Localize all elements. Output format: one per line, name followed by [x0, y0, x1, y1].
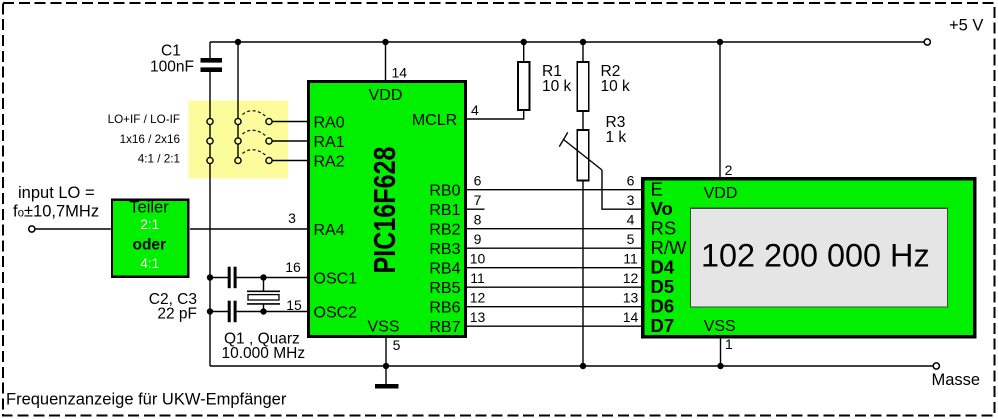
svg-text:D7: D7 [651, 315, 675, 336]
svg-text:MCLR: MCLR [412, 112, 457, 129]
svg-text:7: 7 [474, 192, 482, 208]
svg-text:C1: C1 [161, 43, 181, 60]
junction C1 line / OSC2 [207, 308, 213, 314]
wire LCD VSS pin 1 to ground rail [720, 339, 722, 367]
svg-text:input LO =: input LO = [18, 184, 95, 202]
switch S1 LO+IF / LO-IF [108, 111, 273, 126]
svg-text:5: 5 [627, 231, 635, 247]
svg-text:8: 8 [474, 212, 482, 228]
svg-text:13: 13 [623, 290, 639, 306]
svg-text:14: 14 [623, 309, 639, 325]
svg-text:4: 4 [471, 102, 479, 118]
svg-text:10 k: 10 k [601, 78, 631, 95]
terminal Masse [933, 363, 939, 369]
svg-text:Frequenzanzeige für UKW-Empfän: Frequenzanzeige für UKW-Empfänger [6, 391, 287, 409]
svg-text:RA1: RA1 [314, 134, 345, 151]
svg-text:oder: oder [133, 236, 167, 253]
svg-text:Masse: Masse [932, 371, 981, 389]
svg-text:fo±10,7MHz: fo±10,7MHz [13, 203, 99, 221]
svg-text:12: 12 [623, 270, 639, 286]
svg-text:VSS: VSS [704, 318, 736, 335]
svg-text:1x16 / 2x16: 1x16 / 2x16 [120, 133, 180, 146]
wire R3 bottom to ground rail [582, 181, 584, 367]
svg-text:3: 3 [288, 210, 296, 226]
LCD screen [691, 208, 948, 307]
svg-text:RB6: RB6 [429, 300, 460, 317]
svg-text:4:1: 4:1 [140, 256, 159, 271]
wire R3 wiper to LCD Vo pin 3 [602, 170, 643, 209]
switch S2 1x16 / 2x16 [120, 130, 273, 146]
wire MCLR to R1 [467, 110, 524, 119]
svg-text:E: E [651, 179, 663, 200]
svg-text:4:1 / 2:1: 4:1 / 2:1 [138, 153, 180, 166]
svg-text:D5: D5 [651, 276, 675, 297]
LCD module [643, 179, 975, 337]
wire +5V to switch column [237, 42, 239, 161]
wire S3 to RA2 [272, 160, 307, 162]
svg-text:4: 4 [627, 212, 635, 228]
svg-text:OSC1: OSC1 [314, 271, 358, 288]
junction crystal / OSC2 [260, 308, 266, 314]
wire RB3 to LCD R/W [467, 247, 643, 249]
svg-text:100nF: 100nF [150, 59, 194, 76]
svg-text:6: 6 [474, 173, 482, 189]
svg-text:D6: D6 [651, 296, 675, 317]
svg-text:22 pF: 22 pF [157, 306, 197, 323]
junction LCD VSS / ground rail [717, 363, 723, 369]
wire RB6 to LCD D6 [467, 306, 643, 308]
svg-text:RS: RS [651, 218, 677, 239]
svg-text:+5 V: +5 V [949, 17, 983, 35]
wire RB0 to LCD E [467, 189, 643, 191]
svg-text:3: 3 [627, 192, 635, 208]
wire input to Teiler [35, 228, 111, 230]
svg-text:2:1: 2:1 [140, 217, 159, 232]
junction R1 / rail [521, 39, 527, 45]
svg-text:RA4: RA4 [314, 222, 345, 239]
label input LO [13, 184, 99, 221]
svg-text:11: 11 [623, 251, 638, 267]
IC U1 PIC16F628 [309, 82, 466, 337]
capacitor C3 [149, 291, 237, 323]
svg-text:10: 10 [470, 251, 486, 267]
svg-text:VDD: VDD [704, 185, 738, 202]
svg-text:RB2: RB2 [429, 222, 460, 239]
terminal input LO [29, 226, 35, 232]
svg-text:RA0: RA0 [314, 115, 345, 132]
crystal Q1 [222, 278, 306, 363]
junction switch column / rail [235, 39, 241, 45]
svg-text:12: 12 [470, 290, 486, 306]
wire C2 to OSC1 [237, 277, 307, 279]
wire C1 to ground rail [209, 72, 211, 366]
potentiometer R3 [559, 114, 626, 181]
wire C3 to OSC2 [237, 311, 307, 313]
resistor R2 [577, 42, 630, 130]
svg-text:5: 5 [393, 337, 401, 353]
wire OSC2 left [210, 311, 228, 313]
junction LCD VDD lead / rail [717, 39, 723, 45]
ground symbol [375, 366, 399, 386]
svg-text:RA2: RA2 [314, 154, 345, 171]
svg-text:PIC16F628: PIC16F628 [367, 147, 402, 274]
svg-text:102 200 000 Hz: 102 200 000 Hz [701, 237, 930, 273]
svg-text:RB3: RB3 [429, 241, 460, 258]
svg-text:RB1: RB1 [429, 202, 460, 219]
highlight switch area [189, 101, 289, 179]
wire VSS pin 5 to ground rail [385, 338, 387, 366]
junction crystal / OSC1 [260, 274, 266, 280]
svg-text:10.000 MHz: 10.000 MHz [222, 345, 306, 362]
svg-text:RB5: RB5 [429, 280, 460, 297]
terminal +5V [924, 39, 930, 45]
wire RB4 to LCD D4 [467, 267, 643, 269]
svg-text:RB7: RB7 [429, 319, 460, 336]
wire S1 to RA0 [272, 121, 307, 123]
wire VDD pin 14 [385, 42, 387, 80]
wire Teiler to RA4 [190, 228, 307, 230]
ground rail wire [210, 365, 933, 367]
wire RB7 to LCD D7 [467, 325, 643, 327]
wire S2 to RA1 [272, 140, 307, 142]
svg-text:VSS: VSS [367, 319, 399, 336]
capacitor C2 [228, 267, 237, 289]
junction R2 / rail [580, 39, 586, 45]
junction R3 / ground rail [580, 363, 586, 369]
svg-text:R/W: R/W [651, 237, 688, 258]
svg-text:RB0: RB0 [429, 183, 460, 200]
svg-text:LO+IF / LO-IF: LO+IF / LO-IF [108, 113, 180, 126]
junction VDD lead / rail [382, 39, 388, 45]
svg-text:9: 9 [474, 231, 482, 247]
svg-text:OSC2: OSC2 [314, 305, 358, 322]
svg-text:1: 1 [725, 336, 733, 352]
wire +5V rail [210, 41, 924, 43]
svg-text:6: 6 [627, 173, 635, 189]
svg-text:15: 15 [286, 297, 302, 313]
wire RB5 to LCD D5 [467, 286, 643, 288]
svg-text:11: 11 [470, 270, 485, 286]
divider block Teiler [112, 199, 188, 277]
wire LCD VDD pin 2 [719, 42, 721, 177]
wire OSC1 left [210, 277, 228, 279]
wire RB2 to LCD RS [467, 228, 643, 230]
resistor R1 [518, 42, 572, 110]
pin stub RB1 [467, 208, 485, 210]
svg-text:Teiler: Teiler [129, 199, 169, 217]
junction C1 line / OSC1 [207, 274, 213, 280]
switch S3 4:1 / 2:1 [138, 150, 272, 166]
svg-text:14: 14 [392, 65, 408, 81]
svg-text:16: 16 [285, 259, 301, 275]
junction VSS / ground rail [383, 363, 389, 369]
svg-text:1 k: 1 k [606, 129, 627, 146]
svg-text:13: 13 [470, 309, 486, 325]
capacitor C1 [150, 42, 222, 76]
svg-text:10 k: 10 k [542, 78, 572, 95]
svg-text:D4: D4 [651, 257, 675, 278]
svg-text:Vo: Vo [651, 198, 673, 219]
svg-text:VDD: VDD [369, 87, 403, 104]
svg-text:2: 2 [725, 162, 733, 178]
svg-text:RB4: RB4 [429, 261, 460, 278]
